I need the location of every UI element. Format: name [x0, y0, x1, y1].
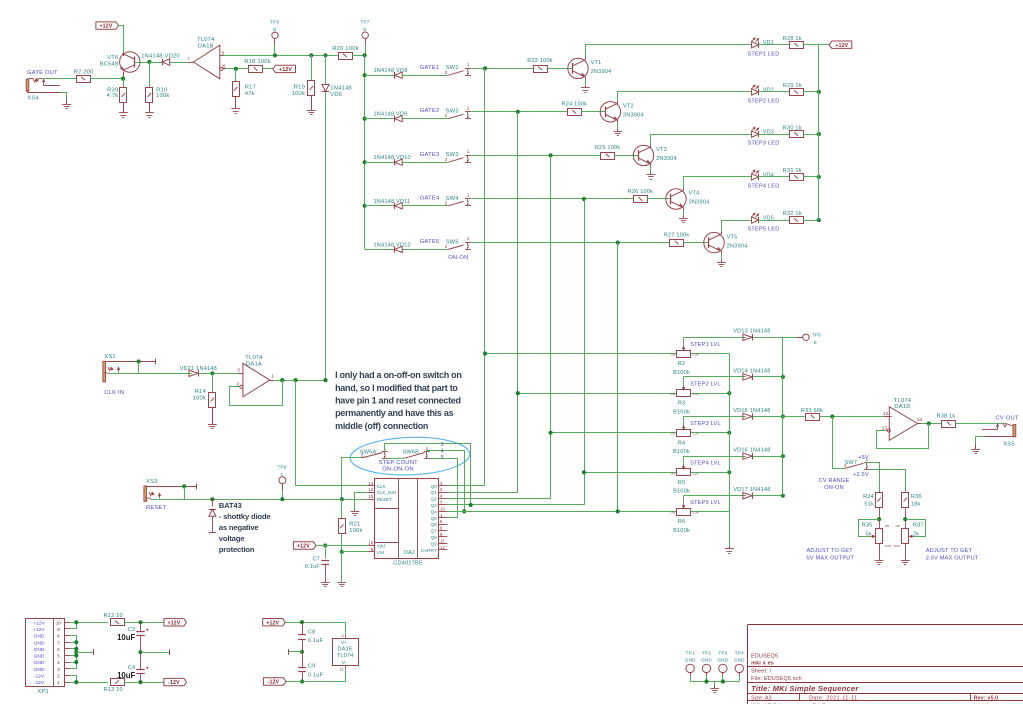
svg-text:R18 100k: R18 100k [244, 59, 270, 65]
ground VT3 [647, 174, 656, 176]
wire pot R6 CCW to ground bus [691, 511, 729, 513]
svg-text:R30 1k: R30 1k [783, 125, 802, 131]
resistor R21 100k [341, 499, 343, 519]
svg-text:BC548: BC548 [100, 62, 119, 68]
svg-text:5V MAX OUTPUT: 5V MAX OUTPUT [807, 556, 855, 562]
power flag +12V (Vdd) [293, 542, 316, 549]
svg-text:E: E [814, 340, 817, 345]
svg-text:SW2: SW2 [446, 109, 459, 115]
svg-text:R31 1k: R31 1k [783, 168, 802, 174]
resistor R18 100k [249, 66, 263, 73]
diode BAT43 schottky [210, 497, 214, 501]
svg-text:+12V: +12V [33, 627, 45, 633]
svg-text:D: D [363, 27, 367, 32]
svg-text:CV OUT: CV OUT [996, 415, 1019, 421]
svg-text:C8: C8 [308, 629, 316, 635]
wire R37 to ground [905, 543, 907, 560]
svg-text:voltage: voltage [219, 534, 245, 543]
power flag -12V (XP1) [164, 678, 187, 685]
svg-text:VT6: VT6 [107, 55, 118, 61]
node C3/C4 mid [138, 650, 142, 654]
wire VT5 collector to LED row [721, 232, 723, 234]
node LED bus row4 [817, 175, 821, 179]
svg-text:RESET: RESET [146, 505, 167, 511]
svg-text:-12V: -12V [268, 680, 280, 686]
transistor VT2 2N3904 [600, 102, 620, 122]
wire summing bus [782, 337, 784, 495]
svg-text:CW: CW [671, 510, 676, 514]
wire VT6 base [135, 62, 150, 64]
node gate bus row2 [363, 117, 367, 121]
svg-text:5k: 5k [866, 532, 872, 538]
svg-text:100k: 100k [349, 528, 362, 534]
wire DA1A out [274, 380, 325, 382]
wire VD16 to sum bus [753, 456, 783, 458]
svg-text:R32 1k: R32 1k [783, 211, 802, 217]
svg-text:have pin 1 and reset connected: have pin 1 and reset connected [335, 396, 461, 406]
resistor R14 100k [212, 373, 214, 392]
svg-text:XS1: XS1 [104, 354, 116, 360]
wire LED to R30 [758, 134, 789, 136]
wire R7 to emitter node [90, 78, 123, 80]
wire VD15 to sum bus [753, 416, 783, 418]
svg-text:R28 1k: R28 1k [783, 36, 802, 42]
resistor R36 18k [902, 493, 909, 508]
svg-text:R23 100k: R23 100k [527, 58, 553, 64]
svg-text:Q0: Q0 [431, 484, 438, 489]
svg-text:GND: GND [34, 640, 45, 646]
svg-text:5: 5 [441, 455, 444, 461]
IC DA1E TL074 power unit [333, 639, 359, 666]
wire node to VD20 cathode [149, 62, 162, 64]
test point TP7 [362, 32, 368, 38]
svg-text:Q3: Q3 [431, 503, 438, 508]
svg-text:Q7: Q7 [431, 529, 438, 534]
svg-text:14: 14 [368, 481, 374, 486]
wire bus to diode VD10 [365, 162, 395, 164]
capacitor C7 0.1uF [325, 546, 327, 559]
wire LED to R29 [758, 91, 789, 93]
node base VT6 [147, 60, 151, 64]
wire step bus to pot R4 [551, 432, 677, 434]
op-amp DA1A TL074 [243, 363, 270, 397]
transistor VT1 2N3904 [568, 58, 588, 78]
ground pot bus [725, 548, 734, 550]
svg-text:STEP COUNT: STEP COUNT [379, 460, 419, 466]
resistor R26 100k [634, 196, 648, 203]
svg-text:DA1B: DA1B [198, 43, 214, 49]
svg-text:C9: C9 [308, 664, 316, 670]
svg-text:C: C [280, 472, 284, 477]
svg-text:CW: CW [895, 524, 900, 528]
ground VT5 [717, 262, 726, 264]
svg-text:CCW: CCW [894, 544, 901, 548]
svg-text:CV RANGE: CV RANGE [819, 478, 850, 484]
wire R27 to VT5 base [683, 242, 709, 244]
svg-text:10: 10 [440, 506, 446, 511]
svg-text:TL074: TL074 [894, 398, 912, 404]
LED VD5 [752, 217, 759, 223]
connector XS4 jack [26, 79, 29, 91]
ground VT2 [613, 131, 622, 133]
svg-text:V+: V+ [341, 640, 347, 646]
wire +12V to Vdd [316, 545, 367, 547]
LED VD4 [752, 174, 759, 180]
ground R19 [307, 110, 316, 112]
svg-text:R27 100k: R27 100k [664, 232, 690, 238]
diode VD9 1N4148 [395, 115, 402, 121]
svg-text:13: 13 [368, 487, 374, 492]
svg-text:TP9: TP9 [277, 464, 286, 469]
diode VD8 1N4148 [395, 72, 402, 78]
capacitor C3 10uF [140, 622, 142, 630]
wire R28 to +12V bus [803, 44, 819, 46]
wire select 4 (SW6B pin4 to Q4) [427, 451, 465, 512]
svg-text:TL074: TL074 [337, 653, 354, 659]
wire VD12 to SW5 [402, 249, 448, 251]
resistor R19 100k [309, 53, 313, 57]
pin 2 Q1 [439, 492, 448, 494]
svg-text:6: 6 [223, 64, 226, 69]
node R13/C4 [138, 680, 142, 684]
node C8/C9 mid [300, 650, 304, 654]
wire pot R3 wiper to VD14 [684, 376, 746, 378]
svg-text:protection: protection [219, 545, 255, 554]
svg-text:Q9: Q9 [431, 541, 438, 546]
wire R25 to VT3 base [614, 155, 638, 157]
diode VD10 1N4148 [395, 159, 402, 165]
wire cap mid stub [141, 652, 170, 654]
node R36/R37 wiper [903, 517, 907, 521]
svg-text:STEP2 LED: STEP2 LED [748, 99, 780, 105]
svg-text:B100k: B100k [673, 410, 690, 416]
svg-text:File: EDUSEQ5.sch: File: EDUSEQ5.sch [751, 676, 802, 682]
svg-text:R33 68k: R33 68k [801, 408, 823, 414]
node R34/R35 wiper [877, 517, 881, 521]
wire cap mid stub (DA1E) [289, 651, 302, 653]
node SW2/bus2 [516, 110, 520, 114]
potentiometer R3 B100k [677, 390, 691, 397]
svg-text:GND: GND [34, 654, 45, 660]
svg-text:Q1: Q1 [431, 490, 438, 495]
wire VD14 to sum bus [753, 376, 783, 378]
svg-text:R13 10: R13 10 [104, 687, 123, 693]
svg-text:TP4: TP4 [735, 651, 744, 656]
svg-text:R19: R19 [294, 84, 305, 90]
ground R39 [119, 112, 128, 114]
svg-text:TP7: TP7 [360, 19, 369, 24]
svg-text:GND: GND [717, 657, 728, 662]
wire VT1 emitter to ground [585, 77, 587, 79]
svg-text:TP3: TP3 [718, 651, 727, 656]
svg-text:GND: GND [701, 657, 712, 662]
diode VD6 1N4148 [323, 53, 327, 57]
wire R23 to VT1 base [547, 68, 573, 70]
svg-text:STEP4 LVL: STEP4 LVL [690, 461, 721, 467]
svg-text:R24 100k: R24 100k [562, 102, 588, 108]
svg-text:4: 4 [441, 448, 444, 454]
svg-text:2.5V MAX OUTPUT: 2.5V MAX OUTPUT [926, 556, 979, 562]
svg-text:1N4148 VD20: 1N4148 VD20 [141, 53, 180, 59]
title block frame [748, 624, 1023, 626]
svg-text:100k: 100k [156, 93, 169, 99]
svg-text:VD15 1N4148: VD15 1N4148 [733, 408, 770, 414]
ground R17 [231, 108, 240, 110]
resistor R30 1k [790, 131, 804, 138]
wire pot ground bus [729, 354, 731, 547]
svg-text:R2: R2 [678, 361, 686, 367]
resistor R29 1k [790, 89, 804, 96]
svg-text:4.7k: 4.7k [107, 93, 119, 99]
wire step select buses [447, 68, 484, 485]
svg-text:DA1D: DA1D [894, 404, 910, 410]
wire R13 to -12V flag [124, 682, 164, 684]
svg-text:XS3: XS3 [146, 479, 158, 485]
svg-text:XS5: XS5 [1003, 441, 1015, 447]
svg-text:2N3904: 2N3904 [591, 69, 612, 75]
svg-text:ADJUST TO GET: ADJUST TO GET [926, 548, 973, 554]
svg-text:GND: GND [685, 657, 696, 662]
wire R38 to XS5 [956, 422, 1006, 424]
wire R24 to VT2 base [581, 111, 605, 113]
svg-text:2: 2 [57, 674, 60, 679]
svg-text:mki x es: mki x es [751, 660, 774, 666]
svg-text:2N3904: 2N3904 [689, 200, 710, 206]
diode VD17 1N4148 [743, 493, 752, 499]
pin 1 Q5 [439, 517, 448, 519]
node R12/C3 [138, 620, 142, 624]
svg-text:R36: R36 [911, 494, 922, 500]
node R33/SW7 [830, 414, 834, 418]
diode VD13 1N4148 [743, 334, 752, 340]
node C8 [300, 620, 304, 624]
power flag +12V (XP1) [164, 619, 187, 626]
diode VD20 1N4148 [162, 59, 169, 66]
svg-text:VD1: VD1 [763, 40, 774, 46]
resistor R34 51k [876, 493, 883, 508]
svg-text:5: 5 [57, 654, 60, 659]
svg-text:TP2: TP2 [702, 651, 711, 656]
wire VD10 to SW3 [402, 162, 448, 164]
svg-text:1N4148 VD9: 1N4148 VD9 [374, 112, 408, 118]
wire GND stub [74, 650, 78, 654]
svg-text:VD21 1N4148: VD21 1N4148 [180, 366, 217, 372]
wire DA1B pin6 row [226, 68, 248, 70]
wire R29 to +12V bus [803, 91, 819, 93]
wire VT2 collector to LED row [617, 101, 619, 103]
svg-text:TP8: TP8 [812, 333, 821, 338]
svg-text:+12V: +12V [167, 620, 180, 626]
transistor VT5 2N3904 [704, 232, 724, 252]
svg-text:CCW: CCW [693, 471, 700, 475]
svg-text:100k: 100k [193, 396, 206, 402]
svg-text:R17: R17 [245, 85, 256, 91]
wire XS4 tip to R7 [42, 78, 76, 80]
wire XP1 GND pins [70, 636, 76, 669]
node sum bus VD15 [781, 414, 785, 418]
connector XS3 jack RESET [144, 486, 147, 501]
svg-text:BAT43: BAT43 [219, 501, 242, 510]
wire bus to diode VD12 [365, 249, 395, 251]
wire R30 to +12V bus [803, 134, 819, 136]
node R17/R18 [234, 67, 238, 71]
wire LED to R28 [758, 44, 789, 46]
svg-text:9: 9 [57, 627, 60, 632]
svg-text:SW5: SW5 [446, 239, 459, 245]
svg-text:permanently and have this as: permanently and have this as [335, 408, 453, 418]
wire pot R2 wiper to VD13 [684, 337, 746, 339]
svg-text:ADJUST TO GET: ADJUST TO GET [807, 548, 854, 554]
wire XP1 -12V pins [70, 676, 76, 683]
svg-text:12: 12 [883, 411, 889, 416]
wire VD21 to DA1A +in [199, 373, 238, 375]
svg-text:STEP1 LED: STEP1 LED [748, 51, 780, 57]
svg-text:STEP5 LED: STEP5 LED [748, 227, 780, 233]
svg-text:+12V: +12V [279, 67, 292, 73]
node SW4/bus4 [582, 197, 586, 201]
node sum bus VD16 [781, 454, 785, 458]
svg-text:B100k: B100k [673, 489, 690, 495]
wire SW7 +2.5V to R36 [870, 470, 906, 493]
svg-text:CLK_INH: CLK_INH [377, 490, 396, 495]
capacitor C4 10uF [140, 652, 142, 670]
svg-text:11: 11 [440, 538, 445, 543]
resistor R7 200 [77, 76, 91, 83]
diode VD15 1N4148 [743, 413, 752, 419]
svg-text:B100k: B100k [673, 370, 690, 376]
wire R32 to +12V bus [803, 220, 819, 222]
pin 4 Q2 [439, 498, 448, 500]
wire pot R4 CCW to ground bus [691, 432, 729, 434]
wire VD20 anode to opamp out [170, 62, 189, 64]
ground XS4 [62, 104, 71, 106]
resistor R23 100k [534, 66, 548, 73]
svg-text:STEP2 LVL: STEP2 LVL [690, 382, 721, 388]
svg-text:SW1: SW1 [446, 65, 459, 71]
svg-text:2k: 2k [913, 532, 919, 538]
svg-text:VD14 1N4148: VD14 1N4148 [733, 368, 770, 374]
svg-text:0.1uF: 0.1uF [308, 638, 324, 644]
wire bus to diode VD11 [365, 205, 395, 207]
svg-text:B: B [273, 27, 276, 32]
wire R26 to VT4 base [647, 198, 671, 200]
node SW3/bus3 [549, 153, 553, 157]
svg-text:CARRY: CARRY [421, 548, 437, 553]
svg-text:7: 7 [187, 57, 190, 62]
wire XP1 +12V pins [70, 623, 76, 629]
pin 8 Vss [367, 551, 374, 553]
test point TP6 [272, 32, 278, 38]
potentiometer R6 B100k [677, 509, 691, 516]
wire DA1D out [921, 423, 942, 425]
svg-text:XP1: XP1 [37, 689, 49, 695]
svg-text:14: 14 [917, 417, 923, 422]
svg-text:18k: 18k [911, 501, 921, 507]
power flag +12V (R18) [262, 68, 273, 70]
svg-text:Q5: Q5 [431, 516, 438, 521]
svg-text:Q6: Q6 [431, 522, 438, 527]
svg-text:11: 11 [340, 667, 344, 671]
wire LED to R31 [758, 176, 789, 178]
svg-text:V-: V- [342, 660, 347, 666]
svg-text:47k: 47k [245, 91, 255, 97]
svg-text:CW: CW [885, 524, 890, 528]
svg-text:0.1uF: 0.1uF [305, 564, 321, 570]
svg-text:Date: 2021-11-11: Date: 2021-11-11 [809, 696, 857, 702]
svg-text:1: 1 [271, 374, 274, 379]
svg-text:1N4148 VD8: 1N4148 VD8 [374, 68, 408, 74]
svg-text:+12V: +12V [266, 620, 279, 626]
svg-text:4: 4 [342, 634, 344, 638]
svg-text:ON-ON: ON-ON [824, 485, 844, 491]
wire VD9 to SW2 [402, 118, 448, 120]
svg-text:R34: R34 [863, 494, 874, 500]
svg-text:CW: CW [671, 353, 676, 357]
wire R34 to R35 [879, 507, 881, 529]
wire R12 to +12V flag [124, 622, 164, 624]
LED VD1 [752, 42, 759, 48]
trimmer R35 5k [876, 529, 883, 544]
svg-text:1N4148 VD10: 1N4148 VD10 [374, 155, 411, 161]
svg-text:4: 4 [57, 660, 60, 665]
svg-text:VD2: VD2 [763, 87, 774, 93]
wire LED +12V bus [818, 45, 820, 220]
wire VT2 emitter to ground [617, 120, 619, 122]
svg-text:1N4148: 1N4148 [330, 85, 352, 91]
svg-text:16: 16 [368, 541, 374, 546]
svg-text:CW: CW [671, 471, 676, 475]
svg-text:STEP3 LVL: STEP3 LVL [690, 421, 721, 427]
potentiometer R4 B100k [677, 430, 691, 437]
pin 3 Q0 [439, 485, 448, 487]
wire RESET row [342, 499, 368, 501]
resistor R28 1k [790, 42, 804, 49]
ground R14 [208, 424, 217, 426]
wire VD17 to sum bus [753, 495, 783, 497]
svg-text:GATE1: GATE1 [420, 65, 440, 71]
node Vss [340, 550, 344, 554]
svg-text:R20 100k: R20 100k [332, 46, 358, 52]
wire +12V to VT6 collector [119, 26, 124, 54]
svg-text:VD16 1N4148: VD16 1N4148 [733, 448, 770, 454]
power flag +12V (LED bus) [819, 44, 829, 46]
resistor R12 10 [111, 619, 125, 626]
wire bus to diode VD8 [365, 75, 395, 77]
wire SW6A common to RESET [342, 458, 363, 500]
svg-text:CCW: CCW [885, 544, 892, 548]
node LED bus row2 [817, 90, 821, 94]
svg-text:CCW: CCW [693, 392, 700, 396]
wire pot R5 wiper to VD16 [684, 456, 746, 458]
connector XS1 jack CLK IN [103, 361, 106, 382]
transistor VT4 2N3904 [666, 189, 686, 209]
svg-text:+5V: +5V [858, 455, 869, 461]
svg-text:0.1uF: 0.1uF [308, 672, 324, 678]
svg-text:+12V: +12V [835, 43, 848, 49]
wire step bus to pot R3 [518, 393, 677, 395]
svg-text:-12V: -12V [168, 680, 180, 686]
ground R10 [145, 112, 154, 114]
op-amp DA1D TL074 [889, 407, 917, 441]
svg-text:Q4: Q4 [431, 509, 438, 514]
wire CLK_INH to ground [355, 493, 368, 512]
svg-text:DA1E: DA1E [337, 646, 352, 652]
wire VD11 to SW4 [402, 205, 448, 207]
wire pot R4 wiper to VD15 [684, 416, 746, 418]
svg-text:-12V: -12V [34, 674, 45, 680]
pin 13 CLK_INH [367, 492, 374, 494]
wire sum bus to R33 [783, 416, 805, 418]
